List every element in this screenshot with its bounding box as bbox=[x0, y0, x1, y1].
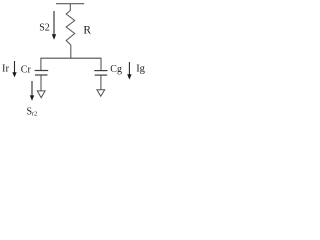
label Sr2 bbox=[27, 106, 38, 117]
svg-text:Cg: Cg bbox=[110, 64, 122, 75]
switch arrow S2 bbox=[52, 11, 56, 40]
wire node to capacitor Cr bbox=[40, 58, 42, 70]
current arrow Ir bbox=[12, 61, 16, 77]
svg-text:Cr: Cr bbox=[21, 64, 32, 75]
svg-text:R: R bbox=[83, 25, 91, 37]
capacitor Cr bbox=[35, 71, 49, 76]
svg-text:S2: S2 bbox=[39, 23, 50, 34]
switch arrow Sr2 bbox=[30, 81, 34, 101]
wire node to capacitor Cg bbox=[100, 58, 102, 70]
wire capacitor Cr to ground bbox=[40, 76, 42, 91]
capacitor Cg bbox=[94, 71, 107, 76]
wire resistor bottom to node bbox=[70, 45, 72, 58]
top rail bbox=[56, 3, 84, 5]
svg-text:r2: r2 bbox=[32, 111, 37, 118]
svg-text:Ir: Ir bbox=[2, 64, 9, 75]
node wire horizontal bbox=[40, 57, 101, 59]
ground Cr (open triangle) bbox=[37, 91, 45, 98]
wire from rail to resistor bbox=[69, 4, 71, 11]
svg-text:Ig: Ig bbox=[136, 64, 145, 75]
ground Cg (open triangle) bbox=[97, 90, 105, 97]
wire capacitor Cg to ground bbox=[100, 76, 102, 90]
current arrow Ig bbox=[127, 62, 131, 80]
resistor R bbox=[66, 11, 75, 46]
